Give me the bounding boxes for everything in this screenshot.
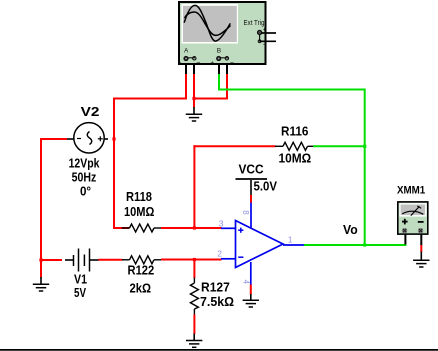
wire scope B- black stub: [226, 65, 228, 75]
wire scope A+ black stub: [185, 65, 187, 75]
junction A-/B-: [192, 97, 195, 100]
wire B+ green vertical: [218, 74, 220, 91]
wire R122 to opamp pin2: [161, 259, 222, 261]
svg-text:−: −: [263, 42, 267, 49]
wire red stem to G1: [40, 260, 42, 278]
wire Vo green: [304, 244, 406, 246]
svg-text:7.5kΩ: 7.5kΩ: [200, 295, 234, 309]
wire R127 red to ground: [193, 315, 195, 335]
svg-text:B: B: [217, 48, 221, 55]
svg-text:8: 8: [241, 210, 250, 215]
wire opamp output blue: [283, 244, 305, 246]
wire feedback horizontal to R116: [193, 145, 275, 147]
svg-text:VCC: VCC: [239, 162, 264, 176]
ground G4: [186, 334, 202, 348]
wire V1+ to R122: [98, 259, 122, 261]
oscilloscope XSC1: [178, 2, 267, 67]
wire A- red to ground: [193, 74, 195, 108]
svg-text:12Vpk: 12Vpk: [69, 157, 100, 171]
junction rail/V1/ground: [39, 258, 42, 261]
ground G5: [413, 252, 429, 268]
voltage source V2: [67, 104, 109, 199]
VCC supply: [236, 162, 278, 195]
wire pin3 blue segment: [221, 227, 236, 229]
svg-text:10MΩ: 10MΩ: [124, 205, 154, 219]
wire B- horizontal to junction: [194, 98, 227, 100]
wire R118 to opamp pin3: [161, 227, 222, 229]
svg-text:V1: V1: [74, 273, 87, 287]
svg-text:5V: 5V: [74, 286, 87, 300]
junction V2+: [112, 137, 115, 140]
wire opamp pin8 blue: [250, 202, 252, 229]
wire pin2 blue segment: [221, 258, 236, 260]
svg-text:XMM1: XMM1: [397, 185, 425, 197]
wire VCC red: [250, 195, 252, 203]
op-amp U1: [217, 210, 292, 284]
svg-text:R116: R116: [281, 125, 308, 139]
svg-text:+: +: [211, 60, 215, 66]
ground G3: [243, 294, 259, 307]
svg-text:−: −: [196, 60, 200, 67]
wire green vertical x364.7: [364, 89, 366, 246]
junction Vo: [363, 243, 366, 246]
wire XMM1 + stub: [404, 234, 406, 245]
wire XMM1 - red: [420, 245, 422, 252]
wire left rail vertical: [40, 138, 42, 261]
wire A+ red vertical: [185, 74, 187, 100]
resistor R127: [190, 260, 234, 316]
wire V2+ vertical x114: [113, 98, 115, 230]
svg-text:V2: V2: [81, 104, 100, 119]
multimeter XMM1: [397, 185, 428, 235]
resistor R122: [122, 256, 162, 296]
wire pin4 red: [250, 285, 252, 295]
ground G1: [33, 277, 49, 291]
svg-text:5.0V: 5.0V: [254, 180, 278, 194]
junction pin3/R116: [193, 226, 196, 229]
svg-text:+: +: [178, 60, 182, 66]
svg-text:A: A: [184, 48, 189, 55]
wire rail to V1: [41, 259, 62, 261]
svg-text:R127: R127: [201, 281, 230, 295]
svg-text:1: 1: [288, 234, 293, 244]
wire ext trig stub top: [261, 32, 276, 34]
svg-text:2: 2: [217, 249, 222, 259]
svg-text:Ext Trig: Ext Trig: [244, 18, 265, 27]
wire B+ green horizontal: [218, 89, 365, 91]
svg-text:3: 3: [219, 218, 224, 228]
wire A+ horizontal to V2: [113, 98, 187, 100]
resistor R118: [114, 190, 162, 232]
svg-text:0°: 0°: [80, 185, 91, 199]
wire V2 left red to rail: [40, 138, 67, 140]
svg-text:2kΩ: 2kΩ: [130, 282, 152, 296]
svg-text:10MΩ: 10MΩ: [279, 152, 312, 166]
svg-text:R122: R122: [128, 264, 155, 278]
wire B- red vertical: [226, 74, 228, 100]
wire scope A- black stub: [193, 65, 195, 75]
svg-text:Vo: Vo: [343, 223, 358, 237]
wire scope B+ black stub: [218, 65, 220, 75]
wire ext trig stub bottom: [260, 40, 276, 42]
svg-text:4: 4: [242, 280, 251, 285]
svg-text:50Hz: 50Hz: [72, 171, 97, 185]
wire opamp pin4 blue: [250, 262, 252, 285]
junction R116 right: [363, 145, 366, 148]
canvas bottom border: [0, 349, 438, 351]
resistor R116: [275, 125, 314, 166]
wire R116 green to vertical: [313, 145, 365, 147]
junction R127 top: [193, 258, 196, 261]
battery V1: [65, 249, 99, 301]
svg-text:R118: R118: [126, 190, 152, 204]
wire XMM1 - stub black: [420, 234, 422, 246]
ground G2: [186, 107, 202, 121]
svg-text:−: −: [230, 60, 234, 67]
wire feedback vertical x194.4: [193, 145, 195, 228]
